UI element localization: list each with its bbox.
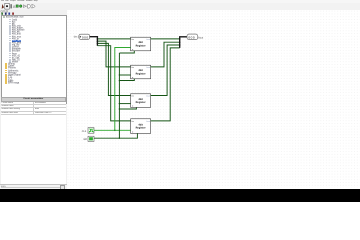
edit tool selected button <box>5 3 9 9</box>
wire: output bus branch to R2 Q <box>151 43 180 68</box>
main toolbar <box>0 3 360 11</box>
wire: R1 Q to output bus <box>151 38 180 40</box>
row B colored project icons <box>1 13 3 15</box>
svg-text:Dout: Dout <box>146 95 150 98</box>
input pin Din <box>74 35 90 40</box>
svg-text:WE: WE <box>84 139 88 142</box>
AND gate icon <box>27 4 30 8</box>
input pin WE <box>84 137 95 142</box>
wire: WE branch to R3 bottom <box>120 108 137 110</box>
register clk marks <box>132 49 133 51</box>
wiring tool icon <box>11 4 12 8</box>
node: Din fan junctions <box>97 39 98 40</box>
letterbox black bar <box>0 189 360 203</box>
svg-text:Dout: Dout <box>146 66 150 69</box>
svg-text:Register: Register <box>136 45 146 48</box>
wire: Din fan to R2 D <box>98 41 131 67</box>
svg-text:Dout: Dout <box>198 37 203 40</box>
svg-text:A: A <box>13 4 16 9</box>
register U3 <box>131 94 151 108</box>
svg-text:Dout: Dout <box>146 120 150 123</box>
svg-text:Register: Register <box>136 73 146 76</box>
wire: CLK line to R4 <box>94 130 131 132</box>
svg-text:000: 000 <box>82 36 89 40</box>
NOT gate icon <box>24 5 26 8</box>
wire: Dout bus (black) <box>180 37 187 48</box>
clock CLK1 <box>82 128 94 134</box>
node: CLK junction <box>114 130 116 132</box>
left panel <box>0 10 68 188</box>
panel toolbar row A <box>0 10 66 15</box>
bottom strip <box>0 184 67 189</box>
OR gate icon <box>32 4 35 8</box>
wire: Din fan to R1 D <box>98 38 131 40</box>
wire: Din fan to R4 D <box>98 46 131 121</box>
svg-text:Register: Register <box>136 101 146 104</box>
wire: WE branch to R3 EN <box>120 103 131 105</box>
explorer tree <box>1 15 68 104</box>
node: WE riser junctions <box>119 75 120 76</box>
svg-text:000: 000 <box>189 36 196 40</box>
wire: CLK riser <box>115 48 131 131</box>
svg-text:Din: Din <box>132 38 135 41</box>
attribute table <box>1 97 66 184</box>
register U4 <box>131 119 151 134</box>
wire: WE riser <box>119 53 121 138</box>
svg-text:Din: Din <box>132 120 135 123</box>
svg-text:Register: Register <box>136 127 146 130</box>
wire: output bus branch to R4 Q <box>151 48 180 121</box>
node: output bus junctions <box>179 39 180 40</box>
schematic canvas <box>67 10 360 188</box>
menu bar <box>0 0 360 3</box>
wire: output bus branch to R3 Q <box>151 45 180 95</box>
svg-text:Din: Din <box>132 66 135 69</box>
wire: Din bus (black) <box>90 37 98 46</box>
register U1 <box>131 38 151 52</box>
svg-text:Din: Din <box>132 95 135 98</box>
svg-text:Dout: Dout <box>146 38 150 41</box>
input pin icon <box>16 5 18 7</box>
wire: WE branch to R1 bottom <box>120 51 135 53</box>
wire: WE branch to R2 bottom <box>120 79 135 81</box>
output pin Dout <box>187 34 203 39</box>
wire: Din fan to R3 D <box>98 44 131 96</box>
poke tool icon <box>2 4 4 9</box>
output pin icon <box>19 5 22 8</box>
register U2 <box>131 66 151 80</box>
wire: WE line to R4 bottom <box>94 134 137 139</box>
svg-text:CLK: CLK <box>82 130 87 133</box>
wire: WE branch to R2 EN <box>120 74 131 76</box>
